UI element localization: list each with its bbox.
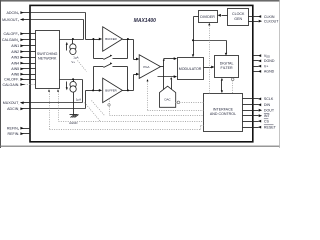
svg-text:NETWORK: NETWORK — [38, 57, 57, 61]
clock gen — [228, 9, 249, 26]
pin ADCIN- (left) — [7, 107, 30, 112]
svg-text:DIGITAL: DIGITAL — [220, 62, 234, 66]
svg-text:MUXOUT+: MUXOUT+ — [2, 18, 20, 23]
pin MUXOUT- (left) — [3, 101, 31, 106]
digital filter — [215, 56, 239, 78]
wire digital filter to interface (bidirectional) — [221, 78, 223, 93]
svg-text:DIN: DIN — [264, 103, 271, 107]
pin DOUT (right) — [253, 109, 275, 113]
pin REFIN+ (left) — [7, 127, 31, 132]
svg-text:RESET: RESET — [264, 125, 277, 129]
svg-text:CLKIN: CLKIN — [264, 15, 275, 19]
pin CALGAIN+ (left) — [2, 38, 31, 43]
ground AGND (burnout sink) — [69, 93, 78, 125]
control PGA dashed — [147, 79, 204, 111]
wire PGA output tip junction — [161, 66, 164, 68]
svg-text:CS: CS — [264, 119, 270, 123]
svg-text:CALOFF+: CALOFF+ — [3, 32, 19, 37]
svg-text:CALGAIN+: CALGAIN+ — [2, 38, 20, 43]
wire DAC output right (to lower line) — [170, 77, 172, 90]
svg-text:CALOFF-: CALOFF- — [4, 78, 19, 83]
control digital filter dashed — [231, 78, 234, 94]
title MAX1400 — [134, 18, 156, 24]
svg-text:DIVIDER: DIVIDER — [200, 15, 215, 19]
svg-text:CLOCK: CLOCK — [232, 12, 245, 16]
svg-text:ADCIN-: ADCIN- — [7, 107, 19, 112]
figure frame — [0, 0, 280, 148]
svg-text:V+: V+ — [71, 60, 75, 64]
pin AIN5 (left) — [11, 67, 30, 71]
wires interface to serial pins — [243, 99, 253, 128]
pin DIN (right) — [253, 103, 271, 107]
pin REFIN- (left) — [8, 132, 31, 137]
pin V+ (right) — [253, 64, 269, 68]
current source 1uA (bottom burnout) — [66, 80, 81, 102]
wire mux+ output to MUXOUT+ — [31, 20, 84, 41]
chip outline MAX1400 — [30, 5, 253, 141]
svg-text:BUFFER: BUFFER — [105, 37, 117, 41]
current source 1uA (top burnout, V+) — [66, 40, 79, 64]
svg-text:AND CONTROL: AND CONTROL — [210, 112, 236, 116]
control switching network dashed A — [57, 89, 204, 121]
svg-text:AIN6: AIN6 — [11, 73, 19, 77]
pin ADCIN+ (left) — [6, 11, 30, 16]
wire PGA/DAC vertical to upper summing line — [163, 58, 165, 76]
bypass switch S2 (around bottom buffer) — [94, 62, 128, 90]
svg-text:AIN2: AIN2 — [11, 50, 19, 54]
pin AIN1 (left) — [11, 44, 30, 48]
buffer U1 (top) — [103, 27, 123, 51]
pin AIN6 (left) — [11, 73, 30, 77]
wire divider clock to modulator and filter — [192, 17, 227, 58]
control divider dashed — [208, 23, 210, 94]
pin CS (right) — [253, 119, 270, 124]
wire lower summing line to modulator — [158, 75, 178, 78]
wires clock gen to CLKIN/CLKOUT — [249, 17, 253, 22]
svg-text:INTERFACE: INTERFACE — [213, 107, 234, 111]
pin SCLK (right) — [253, 97, 274, 101]
pin INT (right) — [253, 113, 271, 118]
control dashed diagonal to switches — [78, 61, 105, 122]
svg-text:AIN4: AIN4 — [11, 61, 19, 65]
pin MUXOUT+ (left) — [2, 18, 30, 23]
svg-text:V+: V+ — [264, 64, 269, 68]
wire mux- output to MUXOUT- — [31, 78, 83, 102]
svg-text:GEN: GEN — [234, 17, 242, 21]
switching network — [36, 31, 60, 89]
pin CALOFF- (left) — [4, 78, 30, 83]
svg-text:FILTER: FILTER — [221, 66, 234, 70]
pin RESET (right) — [253, 125, 277, 130]
DAC (offset calibration) — [160, 86, 176, 107]
wire ADCIN- to buffer2 input — [31, 89, 103, 109]
svg-text:REFIN+: REFIN+ — [7, 127, 20, 132]
svg-text:DOUT: DOUT — [264, 109, 275, 113]
control DAC dashed — [176, 101, 204, 104]
control buffer/switches dashed — [108, 99, 204, 116]
wire upper summing line to modulator — [164, 57, 178, 60]
pin CALOFF+ (left) — [3, 32, 30, 37]
divider — [199, 11, 218, 23]
pin AIN2 (left) — [11, 50, 30, 54]
svg-text:1µA: 1µA — [76, 98, 81, 102]
svg-text:PGA: PGA — [143, 65, 149, 69]
wires left pins to switching network — [31, 34, 36, 80]
svg-text:MAX1400: MAX1400 — [134, 18, 156, 24]
pin VDD (right) — [253, 54, 271, 59]
pin CLKIN (right) — [253, 15, 275, 19]
svg-text:SWITCHING: SWITCHING — [37, 52, 58, 56]
wire DAC output left (to upper line) — [163, 77, 165, 90]
bypass switch S1 (around top buffer) — [94, 40, 128, 60]
pin AIN4 (left) — [11, 61, 30, 65]
svg-text:CLKOUT: CLKOUT — [264, 19, 279, 23]
wire ADCIN+ to buffer1 input — [31, 13, 103, 41]
pin AIN3 (left) — [11, 56, 30, 60]
modulator — [178, 58, 204, 80]
wire buffer2 output to PGA — [123, 73, 140, 92]
pin CLKOUT (right) — [253, 19, 280, 23]
op-amp PGA — [139, 55, 160, 79]
svg-text:DAC: DAC — [165, 98, 171, 102]
svg-text:AIN5: AIN5 — [11, 67, 19, 71]
svg-text:MUXOUT-: MUXOUT- — [3, 101, 20, 106]
svg-text:AIN3: AIN3 — [11, 56, 19, 60]
buffer U2 (bottom) — [103, 78, 123, 102]
svg-text:SCLK: SCLK — [264, 97, 274, 101]
pin DGND (right) — [253, 59, 275, 63]
svg-text:MODULATOR: MODULATOR — [179, 67, 202, 71]
wire clock gen to divider — [218, 14, 228, 17]
svg-text:BUFFER: BUFFER — [105, 89, 117, 93]
interface and control — [204, 94, 243, 132]
svg-text:AGND: AGND — [264, 70, 275, 74]
svg-text:DGND: DGND — [264, 59, 275, 63]
svg-text:AIN1: AIN1 — [11, 44, 19, 48]
svg-text:INT: INT — [264, 114, 271, 118]
control switching network dashed B — [48, 89, 204, 129]
pin AGND (right) — [253, 70, 275, 74]
svg-text:CALGAIN-: CALGAIN- — [3, 83, 20, 88]
wire modulator to digital filter — [204, 66, 215, 69]
svg-text:REFIN-: REFIN- — [8, 132, 20, 137]
wire buffer1 output to PGA — [123, 38, 140, 60]
pin CALGAIN- (left) — [3, 83, 36, 88]
